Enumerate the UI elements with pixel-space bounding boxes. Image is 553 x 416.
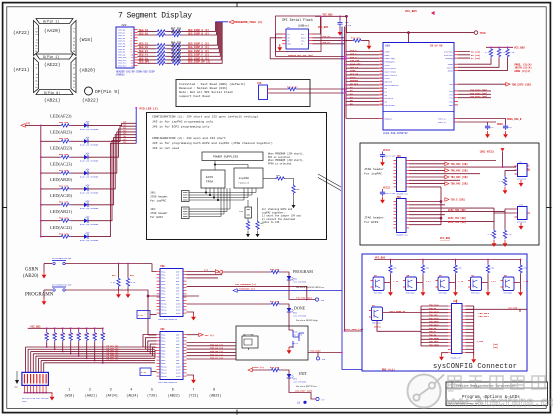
resistor R92 (503, 229, 513, 247)
svg-text:VCC33: VCC33 (383, 149, 391, 152)
svg-text:(AE24): (AE24) (126, 394, 138, 399)
svg-text:J35: J35 (257, 82, 262, 85)
svg-text:TCK_E [5B]: TCK_E [5B] (451, 199, 465, 202)
svg-text:P6: P6 (380, 70, 382, 72)
svg-text:10K: 10K (276, 174, 281, 177)
svg-text:Installed : Fast Read (0Bh) (d: Installed : Fast Read (0Bh) (default) (179, 82, 246, 86)
svg-text:On when INITN low: On when INITN low (296, 385, 317, 388)
svg-text:J33: J33 (260, 222, 265, 225)
wire segment row B (138, 22, 217, 37)
title block (446, 382, 548, 406)
junction dots on buses (341, 40, 347, 94)
svg-text:7: 7 (192, 389, 194, 393)
pullup rail VCC_LED (28, 325, 103, 328)
wires U10 (494, 208, 515, 229)
svg-text:XRES_600_B: XRES_600_B (507, 118, 522, 121)
LED bus riser blue (135, 106, 158, 143)
svg-text:VCC_B05: VCC_B05 (440, 237, 451, 240)
svg-text:J45:: J45: (150, 192, 156, 195)
svg-text:E7 (2B): E7 (2B) (471, 57, 480, 60)
svg-text:JTAG header: JTAG header (364, 167, 384, 171)
svg-text:U6F: U6F (161, 328, 166, 331)
svg-text:SEG_E1: SEG_E1 (139, 50, 149, 53)
svg-text:CONFIGURATION (2): J34 open an: CONFIGURATION (2): J34 open and J33 shor… (152, 136, 226, 140)
wires J37 right collector (466, 306, 528, 356)
ground red J2 (24, 393, 54, 401)
segment A (36, 19, 73, 24)
svg-text:MMBT3904: MMBT3904 (504, 293, 513, 295)
svg-text:LED(AD23): LED(AD23) (50, 145, 73, 150)
svg-text:On when DONE high: On when DONE high (296, 319, 318, 322)
svg-text:SW PUSHBUTTON-SMD: SW PUSHBUTTON-SMD (52, 257, 72, 260)
svg-text:R58 220: R58 220 (59, 121, 69, 124)
svg-text:www.elecfans.com: www.elecfans.com (446, 395, 553, 410)
svg-text:(2): (2) (123, 141, 126, 144)
svg-text:PROGRAMN: PROGRAMN (25, 293, 54, 298)
svg-text:4.7K: 4.7K (131, 281, 137, 284)
svg-text:CONFIG_SEL_SPI (2B): CONFIG_SEL_SPI (2B) (288, 54, 313, 57)
ground U6F (187, 375, 196, 384)
svg-text:GND: GND (15, 387, 18, 389)
svg-text:PTN_PROGRAMN (2): PTN_PROGRAMN (2) (235, 283, 256, 286)
LED bank left bus (40, 125, 42, 236)
svg-text:BLUE LED SMT0805: BLUE LED SMT0805 (80, 191, 99, 194)
wire segment row G (138, 22, 222, 62)
wires J46 to chips (189, 188, 230, 217)
svg-text:(AB23): (AB23) (209, 394, 221, 399)
svg-text:TDO_PAC [5B]: TDO_PAC [5B] (451, 183, 468, 186)
svg-text:XRES_B: XRES_B (438, 121, 446, 124)
svg-text:VCC_B03: VCC_B03 (30, 325, 41, 328)
svg-text:PB10A: PB10A (161, 365, 167, 368)
config note right bottom (262, 208, 301, 224)
resistor config R2 (292, 184, 301, 208)
svg-text:PROGRAMN_7SEG (2): PROGRAMN_7SEG (2) (234, 20, 263, 24)
svg-text:3: 3 (110, 389, 112, 393)
wire U9 (503, 167, 517, 176)
svg-text:sysCONFIG Connector: sysCONFIG Connector (433, 363, 517, 371)
test point L6 (297, 401, 307, 405)
svg-text:(AB22): (AB22) (168, 394, 180, 399)
wire bus U6F to driver box (187, 343, 237, 360)
jumper J35 (257, 82, 271, 100)
svg-text:R61 220: R61 220 (171, 49, 182, 52)
svg-text:U6E: U6E (161, 265, 166, 268)
svg-text:R59 220: R59 220 (59, 137, 69, 140)
svg-text:PR4_(4:1): PR4_(4:1) (382, 368, 395, 371)
resistor RP6 (84, 327, 90, 359)
segment E (34, 58, 39, 93)
IC U6 config block (383, 43, 454, 136)
svg-text:R60 220: R60 220 (59, 153, 69, 156)
transistor Q3 (242, 333, 258, 350)
svg-text:JTAG header: JTAG header (150, 195, 168, 199)
svg-text:SEG_DISP_A (2): SEG_DISP_A (2) (188, 29, 210, 32)
svg-text:(AB21): (AB21) (44, 98, 61, 104)
svg-text:J37: J37 (453, 300, 458, 303)
resistor J33 pulldown (256, 198, 265, 238)
svg-text:MMBT3904: MMBT3904 (471, 293, 480, 295)
svg-text:VCC_B05: VCC_B05 (508, 307, 518, 310)
LED indicator DONE (270, 300, 318, 326)
svg-text:SEG_DP1: SEG_DP1 (139, 61, 150, 64)
svg-text:R76 330: R76 330 (270, 268, 280, 271)
IC U6F (157, 328, 187, 384)
JTAG header J46 small (182, 207, 190, 219)
svg-text:ispPAC: ispPAC (239, 176, 250, 180)
ground U9 (519, 180, 524, 187)
svg-text:Title: Title (448, 390, 455, 393)
svg-text:B(Pin 7): B(Pin 7) (72, 28, 76, 52)
svg-text:J_TDO: J_TDO (477, 340, 484, 343)
svg-text:4.7K: 4.7K (485, 51, 491, 54)
svg-text:JTAG header: JTAG header (150, 211, 168, 215)
capacitor C86 (337, 15, 351, 35)
svg-text:SEG_DISP_DP (2): SEG_DISP_DP (2) (188, 61, 211, 64)
svg-text:POWER SUPPLIES: POWER SUPPLIES (213, 156, 238, 159)
svg-text:PB13A: PB13A (161, 375, 167, 378)
svg-text:LED SMT0805: LED SMT0805 (294, 380, 307, 383)
svg-text:LFE2-50E-6FN672C: LFE2-50E-6FN672C (158, 381, 178, 384)
svg-text:R61 220: R61 220 (59, 169, 69, 172)
svg-text:C85 0.1UF: C85 0.1UF (385, 192, 395, 195)
svg-text:BLUE LED SMT0805: BLUE LED SMT0805 (80, 128, 99, 131)
svg-text:MMBT3904: MMBT3904 (372, 323, 381, 325)
svg-text:PIO_LED (2): PIO_LED (2) (140, 106, 159, 110)
svg-text:(W19): (W19) (64, 394, 74, 399)
svg-text:LED SMT0805: LED SMT0805 (294, 314, 307, 317)
svg-text:support Fast Read: support Fast Read (179, 94, 210, 98)
svg-text:PRG_D7 (2): PRG_D7 (2) (210, 357, 223, 360)
svg-text:P15: P15 (380, 100, 383, 102)
svg-text:PRG_SEL1: PRG_SEL1 (479, 315, 490, 318)
svg-text:4.7K: 4.7K (141, 371, 147, 374)
svg-text:FPGA is selected.: FPGA is selected. (268, 162, 292, 165)
wire vertical link J45-J46 (440, 187, 442, 225)
IC U10 socket (515, 203, 531, 223)
svg-text:MMBT3904: MMBT3904 (406, 293, 415, 295)
svg-text:SEG_C1: SEG_C1 (139, 43, 149, 46)
svg-text:LED(AF23): LED(AF23) (50, 114, 72, 119)
svg-text:LFE2-50E-6FN672C: LFE2-50E-6FN672C (158, 318, 178, 321)
svg-text:for ispPAC: for ispPAC (364, 172, 382, 176)
svg-text:COB_INIT (2B): COB_INIT (2B) (295, 390, 312, 393)
wire segment row DP (138, 22, 223, 65)
transistor Q6 cluster (436, 259, 464, 296)
svg-text:cable to J45.: cable to J45. (262, 221, 281, 224)
wires pullups to U6 pins (458, 58, 508, 70)
resistor RP3 (60, 327, 66, 352)
transistor Q9 left (369, 304, 421, 332)
wires XRES (458, 119, 506, 123)
svg-text:PB13A: PB13A (161, 312, 167, 315)
resistor R91 (488, 229, 497, 247)
svg-text:J20: J20 (121, 24, 127, 27)
svg-text:4.7K: 4.7K (68, 333, 74, 336)
svg-text:XRES: XRES (497, 123, 503, 126)
U6 left pins and wires (345, 49, 399, 107)
svg-text:4.7K: 4.7K (84, 333, 90, 336)
svg-text:DONE: DONE (448, 69, 454, 72)
svg-text:HEADER 5X2: HEADER 5X2 (397, 234, 408, 237)
svg-text:SI: SI (301, 43, 303, 46)
svg-text:PB_SW7 (2): PB_SW7 (2) (107, 358, 119, 361)
LED indicator INIT (248, 366, 325, 402)
svg-text:PRG_PGMN: PRG_PGMN (429, 344, 439, 347)
svg-text:VCC_B05: VCC_B05 (405, 10, 417, 13)
resistor RP8 (100, 327, 106, 363)
connector J45 (394, 155, 410, 196)
svg-text:R60 220: R60 220 (171, 45, 182, 48)
svg-text:BLUE LED SMT0805: BLUE LED SMT0805 (80, 207, 99, 210)
svg-text:P3: P3 (380, 60, 382, 62)
svg-text:P0: P0 (380, 50, 382, 52)
watermark (408, 375, 553, 411)
IC U8 SPI flash (282, 26, 313, 53)
svg-text:GSRN: GSRN (25, 268, 39, 273)
svg-text:C84 0.1UF: C84 0.1UF (385, 155, 395, 158)
svg-text:LED(AC23): LED(AC23) (50, 161, 72, 166)
U6 right pins (379, 51, 458, 125)
svg-text:J34: J34 (239, 210, 244, 213)
svg-text:4.7K: 4.7K (52, 333, 58, 336)
segment B (71, 21, 76, 56)
svg-text:4M3 (2): 4M3 (2) (205, 334, 214, 337)
MOSFET Q2 (287, 326, 304, 354)
svg-text:R77 330: R77 330 (270, 300, 280, 303)
svg-text:5: 5 (151, 389, 153, 393)
svg-text:(AA21): (AA21) (85, 394, 97, 399)
wire segment bus top (216, 21, 229, 23)
svg-text:C8 of U6: C8 of U6 (430, 44, 443, 48)
svg-text:LED(AC20): LED(AC20) (50, 193, 72, 198)
capacitor C85 (380, 186, 395, 203)
connector J46 (394, 196, 410, 237)
ispPAC box (234, 168, 263, 188)
svg-text:P10: P10 (380, 84, 383, 86)
svg-text:R74 4K7: R74 4K7 (351, 36, 361, 39)
svg-text:SW PUSHBUTTON-SMD: SW PUSHBUTTON-SMD (52, 284, 72, 287)
svg-text:D(Pin 8): D(Pin 8) (44, 91, 60, 96)
svg-text:4.7K: 4.7K (76, 333, 82, 336)
svg-text:CONN16: CONN16 (116, 74, 125, 77)
svg-text:VCC_B05: VCC_B05 (318, 26, 329, 29)
resistor R71 (287, 86, 298, 91)
svg-text:PB10A: PB10A (161, 302, 167, 305)
svg-text:TCK_PAC [5B]: TCK_PAC [5B] (451, 163, 468, 166)
svg-text:8: 8 (213, 389, 215, 393)
svg-text:U6B: U6B (385, 45, 390, 48)
connector J20 (7-seg header) (116, 24, 134, 68)
svg-text:LED(AC22): LED(AC22) (50, 225, 72, 230)
svg-text:J45 is for ispPAC programming: J45 is for ispPAC programming only (152, 120, 213, 124)
svg-text:ECP2_TMS [5B]: ECP2_TMS [5B] (448, 221, 466, 224)
svg-text:ECP2: ECP2 (206, 176, 213, 179)
wire J35 to bus (271, 89, 347, 93)
svg-text:ECP2_DONE (2B): ECP2_DONE (2B) (345, 328, 363, 331)
resistor RP2 (52, 327, 58, 350)
wire top elbow to U6 (346, 15, 474, 42)
svg-text:VCC33: VCC33 (383, 186, 391, 189)
svg-text:TDO_ECP2 [5B]: TDO_ECP2 [5B] (512, 84, 532, 87)
connector J2 proto header (22, 372, 49, 402)
LED D6 row AC20 (40, 135, 136, 210)
svg-text:(Y21): (Y21) (188, 394, 198, 399)
wires J45 nets (409, 161, 516, 187)
svg-text:PB11A: PB11A (161, 369, 167, 372)
svg-text:MMBT3904: MMBT3904 (439, 293, 448, 295)
resistor R22 (126, 263, 137, 298)
wire TDO to net arrow (458, 83, 506, 85)
svg-text:R64 220: R64 220 (171, 60, 182, 63)
svg-text:E(Pin 4): E(Pin 4) (34, 64, 38, 88)
capacitor C77 (485, 124, 495, 138)
wires J37 left nets (421, 306, 448, 346)
svg-text:(2): (2) (26, 122, 31, 125)
J37 top stub (456, 300, 458, 304)
svg-text:ECP2_TDI [5B]: ECP2_TDI [5B] (448, 217, 466, 220)
svg-text:A(Pin 1): A(Pin 1) (43, 20, 59, 25)
LED D8 row AC22 (40, 141, 136, 242)
svg-text:[2B]: [2B] (493, 346, 498, 349)
svg-text:P9: P9 (380, 80, 382, 82)
driver box (236, 326, 308, 360)
power tap VCC_B05 (405, 10, 435, 15)
svg-text:F(Pin 10): F(Pin 10) (34, 28, 38, 52)
wires J46 nets (409, 202, 505, 225)
wires J45 to chips (189, 188, 256, 201)
svg-text:1: 1 (68, 389, 70, 393)
svg-text:SEG_DISP_D (2): SEG_DISP_D (2) (188, 46, 210, 49)
svg-text:(AF21): (AF21) (13, 67, 30, 73)
svg-text:SPI Serial Flash: SPI Serial Flash (282, 18, 313, 22)
decimal point DP (85, 87, 93, 95)
bus line maroon vertical 2 (345, 27, 347, 106)
svg-text:R63 220: R63 220 (59, 201, 69, 204)
wire bus risers to U6F (143, 335, 157, 359)
svg-text:6: 6 (172, 389, 174, 393)
svg-text:G(Pin 1): G(Pin 1) (43, 55, 59, 60)
svg-text:RESETN: RESETN (374, 325, 382, 328)
svg-text:POWER-14P: POWER-14P (451, 356, 462, 359)
svg-text:4.7K: 4.7K (44, 333, 50, 336)
svg-text:Note: Not all SPI Serial Flash: Note: Not all SPI Serial Flash (179, 90, 233, 94)
wire segment row F (138, 22, 221, 58)
svg-text:CFGIRQ: CFGIRQ (445, 57, 453, 60)
svg-text:BLUE LED SMT0805: BLUE LED SMT0805 (80, 160, 99, 163)
wires U6 right upper stubs (458, 52, 470, 59)
J20 pin rows (118, 29, 138, 68)
svg-text:ECP2_DONE_OC: ECP2_DONE_OC (390, 310, 406, 313)
ground arrow left of J2 (15, 371, 20, 389)
LED D1 row AF23 (40, 114, 136, 131)
svg-text:LED(AB21): LED(AB21) (50, 209, 72, 214)
svg-text:ECP2_TDO [5B]: ECP2_TDO [5B] (448, 209, 466, 212)
VCC rail sysCONFIG (374, 257, 520, 260)
jumper J34 (239, 207, 252, 218)
svg-text:R58 220: R58 220 (171, 31, 182, 34)
svg-text:SEG_A1: SEG_A1 (139, 29, 149, 32)
svg-text:SEG_DISP_E (2): SEG_DISP_E (2) (188, 50, 210, 53)
ground near U6 top left (351, 36, 371, 49)
svg-text:J46 is not used: J46 is not used (152, 146, 179, 150)
svg-text:DONE (2)(4): DONE (2)(4) (515, 70, 531, 73)
svg-text:Lattice Semiconductor Corporat: Lattice Semiconductor Corporation (456, 384, 516, 388)
transistor Q4 cluster (371, 259, 399, 296)
config note right top (268, 153, 304, 166)
svg-text:JTAG header: JTAG header (364, 216, 384, 220)
svg-text:(AB20): (AB20) (79, 68, 96, 74)
svg-text:SPI_SO: SPI_SO (323, 35, 331, 38)
ground J37 left (439, 353, 448, 361)
transistor Q5 cluster (403, 259, 431, 296)
bus line maroon vertical (344, 27, 346, 332)
svg-text:PROGRAMN (2): PROGRAMN (2) (239, 288, 255, 291)
svg-text:PTN_PGM (2B): PTN_PGM (2B) (296, 296, 312, 299)
svg-text:(AB20): (AB20) (23, 274, 39, 279)
ground U6E (187, 312, 196, 321)
segment F (34, 21, 39, 56)
svg-text:2: 2 (89, 389, 91, 393)
svg-text:PB12A: PB12A (161, 372, 167, 375)
note box: SPI fast read (176, 80, 310, 107)
svg-text:[5B] VCC33: [5B] VCC33 (480, 151, 495, 154)
svg-text:4.7K: 4.7K (138, 314, 144, 317)
wire segment row C (138, 22, 218, 47)
power supplies box (202, 152, 263, 161)
bus tap diagonals (318, 174, 341, 191)
LED D3 row AD23 (40, 126, 136, 162)
ECP2 FPGA box (201, 170, 225, 188)
resistor RP4 (68, 327, 74, 354)
wire driver to sysCONFIG (308, 353, 342, 357)
svg-text:BLUE LED SMT0805: BLUE LED SMT0805 (80, 144, 99, 147)
svg-text:U10: U10 (519, 203, 524, 206)
svg-text:PROGRAM: PROGRAM (293, 269, 313, 274)
svg-text:R59 220: R59 220 (171, 41, 182, 44)
svg-text:D6/SPID0: D6/SPID0 (385, 104, 396, 107)
configuration note box (147, 113, 327, 240)
svg-text:P12: P12 (380, 90, 383, 92)
svg-text:7 Segment Display: 7 Segment Display (118, 12, 192, 21)
svg-text:(2): (2) (204, 269, 208, 272)
LED indicator PROGRAM (218, 268, 325, 302)
svg-text:LED(AB23): LED(AB23) (50, 130, 72, 135)
svg-text:MMBT3904: MMBT3904 (374, 293, 383, 295)
IC U6E (157, 265, 187, 321)
resistor R81 (497, 48, 506, 58)
svg-text:L6: L6 (297, 402, 301, 405)
svg-text:4.7K: 4.7K (92, 333, 98, 336)
svg-text:SEG_DISP_B (2): SEG_DISP_B (2) (188, 32, 210, 35)
bus line blue vertical (342, 27, 421, 370)
segment C (71, 58, 76, 93)
svg-text:On when PROGRAMN low: On when PROGRAMN low (296, 286, 324, 289)
SPI serial flash block outline (276, 16, 322, 52)
svg-text:R71 4.7K: R71 4.7K (287, 86, 298, 89)
wire segment row E (138, 22, 220, 55)
svg-text:SEG_G13: SEG_G13 (118, 65, 127, 68)
svg-text:SEG_DISP_C (2): SEG_DISP_C (2) (188, 43, 210, 46)
resistor RP7 (92, 327, 98, 361)
wire GSRN to U6E (147, 264, 156, 336)
svg-text:P5: P5 (380, 67, 382, 69)
svg-text:BLUE LED SMT0805: BLUE LED SMT0805 (80, 239, 99, 242)
ground SPI (277, 44, 282, 51)
svg-text:PB12A: PB12A (161, 309, 167, 312)
svg-text:SEG_F1: SEG_F1 (139, 54, 149, 57)
svg-text:ATP18SC8: ATP18SC8 (517, 177, 527, 180)
